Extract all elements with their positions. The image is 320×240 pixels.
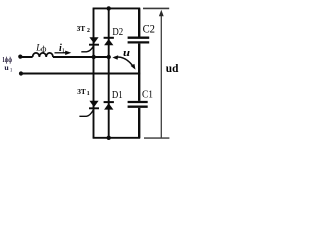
label D2 — [112, 27, 123, 38]
label C1 — [142, 88, 153, 100]
label C2 — [143, 23, 156, 36]
diode D1 — [104, 102, 114, 110]
label 3T1 — [77, 87, 90, 97]
svg-text:u: u — [123, 48, 130, 59]
svg-text:C1: C1 — [142, 88, 153, 100]
thyristor 3T1 — [79, 101, 99, 117]
inductor Lf — [33, 53, 53, 57]
wire branch 2 (diode leg) — [108, 8, 110, 137]
wire bottom rail — [93, 137, 141, 139]
wire ud top tick — [143, 7, 169, 9]
svg-text:1: 1 — [87, 91, 90, 97]
svg-text:C2: C2 — [143, 23, 156, 36]
label iL current — [59, 43, 66, 55]
label 3T2 — [77, 24, 90, 34]
svg-text:ф: ф — [41, 45, 47, 54]
svg-text:D1: D1 — [112, 90, 123, 101]
label ud — [166, 61, 179, 75]
capacitor C1 — [128, 102, 148, 107]
node junction wire1 / branch 2 — [107, 55, 111, 59]
wire top rail — [93, 7, 141, 9]
wire branch 1 (left side, thyristor leg) — [93, 8, 95, 137]
wire input line 1 through inductor — [20, 56, 108, 58]
svg-text:2: 2 — [87, 28, 90, 34]
diode D2 — [104, 38, 114, 46]
label D1 — [112, 90, 123, 101]
arrow ud (output voltage) — [159, 10, 164, 138]
capacitor C2 — [128, 38, 150, 43]
node junction wire1 / branch 1 — [92, 55, 96, 59]
wire branch 3 (capacitor leg, right side) — [138, 8, 140, 137]
label u — [123, 48, 130, 59]
label 1f u1 (left source text) — [2, 55, 13, 73]
thyristor 3T2 — [81, 37, 99, 52]
svg-text:u: u — [4, 63, 9, 72]
arrow iL — [55, 51, 72, 55]
node terminal dot input 1 — [18, 55, 22, 59]
wire ud bottom tick — [144, 137, 169, 139]
node junction top rail / branch 2 — [107, 6, 111, 10]
node terminal dot input 2 — [19, 71, 23, 75]
svg-text:3T: 3T — [77, 87, 86, 96]
arrow u (voltage arc annotation) — [112, 55, 135, 69]
wire input line 2 to capacitor midpoint — [21, 73, 140, 75]
node junction bottom rail / branch 2 — [107, 136, 111, 140]
svg-text:3T: 3T — [77, 24, 86, 33]
svg-text:ud: ud — [166, 61, 179, 75]
svg-text:D2: D2 — [112, 27, 123, 38]
svg-text:1: 1 — [10, 68, 13, 74]
label Lf — [35, 42, 47, 53]
